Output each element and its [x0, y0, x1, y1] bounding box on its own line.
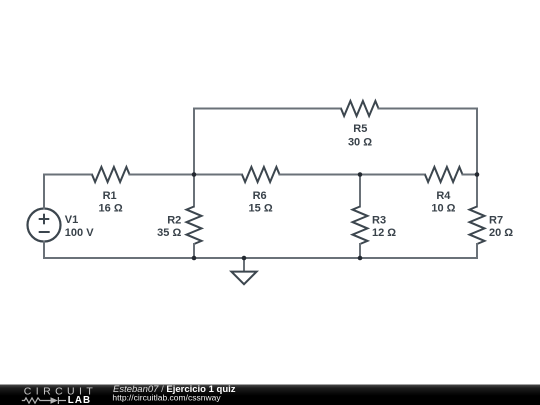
- svg-text:R1: R1: [103, 190, 117, 202]
- resistor R1: [92, 167, 130, 182]
- svg-text:100 V: 100 V: [65, 227, 94, 239]
- svg-text:R2: R2: [167, 214, 181, 226]
- wire riser top rail to node C: [476, 109, 478, 175]
- resistor R4: [425, 167, 463, 182]
- CircuitLab logo icon resistor and diode: [22, 397, 66, 404]
- wire top rail left: [194, 108, 341, 110]
- wire R1 to node A: [130, 174, 243, 176]
- svg-text:10 Ω: 10 Ω: [431, 203, 455, 215]
- svg-text:http://circuitlab.com/cssnway: http://circuitlab.com/cssnway: [112, 392, 221, 402]
- resistor R5: [341, 101, 379, 116]
- svg-text:35 Ω: 35 Ω: [157, 227, 181, 239]
- wire R4 to node C: [463, 174, 478, 176]
- voltage source V1: [28, 209, 61, 242]
- junction ground node: [242, 256, 247, 261]
- svg-text:R4: R4: [436, 190, 451, 202]
- svg-text:R6: R6: [253, 190, 267, 202]
- svg-text:V1: V1: [65, 214, 78, 226]
- wire riser node A to top rail: [193, 109, 195, 175]
- wire top rail right: [379, 108, 478, 110]
- svg-text:R7: R7: [489, 214, 503, 226]
- svg-text:15 Ω: 15 Ω: [249, 203, 273, 215]
- svg-text:LAB: LAB: [68, 395, 91, 405]
- node B junction: [358, 172, 363, 177]
- wire node L to R1: [44, 174, 92, 176]
- svg-text:20 Ω: 20 Ω: [489, 227, 513, 239]
- resistor R2: [187, 175, 202, 259]
- wire V1 top lead: [43, 175, 45, 209]
- ground: [231, 258, 256, 284]
- node A junction: [192, 172, 197, 177]
- node C junction: [475, 172, 480, 177]
- svg-text:R5: R5: [353, 123, 367, 135]
- resistor R7: [470, 175, 485, 259]
- svg-text:16 Ω: 16 Ω: [99, 203, 123, 215]
- resistor R3: [353, 175, 368, 259]
- svg-text:R3: R3: [372, 214, 386, 226]
- junction R3 bottom: [358, 256, 363, 261]
- wire bottom rail: [44, 257, 477, 259]
- svg-text:30 Ω: 30 Ω: [348, 137, 372, 149]
- svg-text:12 Ω: 12 Ω: [372, 227, 396, 239]
- resistor R6: [242, 167, 280, 182]
- junction R2 bottom: [192, 256, 197, 261]
- wire V1 bottom lead: [43, 242, 45, 259]
- wire R6 to node B: [280, 174, 426, 176]
